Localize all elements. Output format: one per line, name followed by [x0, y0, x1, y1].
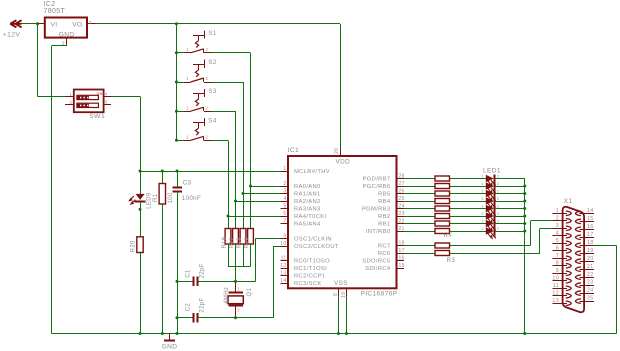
push button S1: [184, 30, 211, 52]
wire IC2 GND down to bottom rail: [52, 46, 67, 334]
svg-text:3: 3: [105, 99, 108, 104]
wire bus to S1 pin1: [176, 52, 184, 54]
svg-text:21: 21: [399, 226, 405, 232]
wire switch bus +5V vertical: [176, 24, 178, 141]
X1 pin numbers: [552, 208, 593, 304]
svg-text:6: 6: [556, 246, 559, 252]
svg-text:GND: GND: [162, 344, 178, 351]
wire bus to S2 pin1: [176, 82, 184, 84]
junction switch bus S3: [175, 110, 178, 113]
svg-text:2: 2: [206, 135, 209, 140]
svg-text:LED9: LED9: [147, 192, 153, 209]
svg-text:7805T: 7805T: [44, 8, 66, 15]
wire common bar down to oscillator node: [235, 267, 237, 282]
svg-text:1: 1: [186, 76, 189, 81]
LED 1/1: [482, 174, 500, 186]
wire RA row to IC1 pin: [236, 201, 281, 203]
svg-text:2: 2: [206, 105, 209, 110]
wire LED1 to cathode bus: [495, 178, 525, 180]
S4 label and pin numbers: [186, 117, 217, 139]
svg-text:R19: R19: [244, 237, 250, 248]
capacitor C3: [172, 171, 182, 335]
resistor R20: [137, 237, 143, 253]
svg-text:1: 1: [482, 196, 485, 201]
wire bus to S3 pin1: [176, 111, 184, 113]
svg-text:RC6: RC6: [378, 251, 391, 257]
net label +12V: [3, 31, 21, 38]
svg-text:2: 2: [556, 216, 559, 222]
wire bus to S4 pin1: [176, 140, 184, 142]
wire column to resistor R18: [235, 201, 237, 229]
svg-text:5: 5: [283, 203, 286, 209]
svg-text:20: 20: [334, 148, 340, 154]
svg-text:25: 25: [587, 296, 594, 302]
wire S4 column down to RA row: [227, 140, 230, 217]
C2 labels: [186, 298, 206, 313]
svg-text:18: 18: [399, 240, 405, 246]
wire resistor to LED4: [450, 201, 487, 203]
push button S2: [184, 60, 211, 83]
wire RB5 row PIC to resistor: [404, 193, 435, 195]
wire RC7 row PIC to resistor: [404, 245, 435, 247]
svg-text:27: 27: [399, 181, 405, 187]
svg-text:R1: R1: [153, 193, 159, 202]
R16 label: [222, 236, 228, 248]
wire +12V down to SW1 pin1: [38, 24, 66, 97]
svg-text:1: 1: [482, 181, 485, 186]
svg-text:RA2/AN2: RA2/AN2: [294, 199, 321, 205]
wire column to resistor R19: [228, 216, 230, 229]
svg-text:23: 23: [587, 280, 594, 286]
svg-text:100: 100: [168, 192, 174, 203]
GND label: [162, 344, 178, 351]
svg-text:22pF: 22pF: [200, 298, 206, 313]
R17 R18 R19 labels (overlapping): [229, 237, 250, 248]
svg-text:RC3/SCK: RC3/SCK: [294, 281, 322, 287]
svg-text:1: 1: [186, 47, 189, 52]
svg-text:24: 24: [587, 288, 594, 294]
svg-text:SDI/RC4: SDI/RC4: [365, 266, 391, 272]
svg-text:17: 17: [587, 232, 594, 238]
wire RB2 row PIC to resistor: [404, 216, 435, 218]
svg-text:24: 24: [399, 203, 405, 209]
IC1 pin number texts: [280, 148, 405, 298]
C1 labels: [186, 263, 206, 278]
LED 1/3: [482, 189, 500, 201]
svg-text:26: 26: [399, 188, 405, 194]
svg-text:12: 12: [552, 291, 559, 297]
svg-text:16: 16: [587, 224, 594, 230]
wire LED2 to cathode bus: [495, 186, 525, 188]
wire RC6 to X1 pin3: [450, 228, 553, 253]
svg-text:19: 19: [587, 248, 594, 254]
svg-text:R3: R3: [447, 257, 456, 264]
wires resistor bottoms to common bar: [228, 244, 251, 267]
svg-text:22: 22: [399, 218, 405, 224]
svg-text:15: 15: [587, 216, 594, 222]
svg-text:R#: R#: [444, 232, 453, 239]
svg-text:R20: R20: [131, 240, 137, 252]
svg-text:GND: GND: [59, 32, 75, 39]
svg-text:8: 8: [556, 261, 559, 267]
C3 labels: [182, 179, 201, 201]
wire S1 pin2 to column: [211, 52, 251, 54]
svg-text:RA4/T0CKI: RA4/T0CKI: [294, 214, 327, 220]
svg-text:20: 20: [587, 256, 594, 262]
svg-text:S3: S3: [208, 88, 217, 95]
wire RB7 row PIC to resistor: [404, 178, 435, 180]
svg-text:PIC16876P: PIC16876P: [361, 290, 398, 297]
wire S2 pin2 to column: [211, 82, 243, 84]
SW1 label: [89, 113, 105, 120]
svg-text:+12V: +12V: [3, 31, 21, 38]
resistor network R# element 2: [435, 184, 450, 189]
svg-text:S4: S4: [208, 117, 217, 124]
junction switch bus S4: [175, 139, 178, 142]
svg-text:13: 13: [552, 298, 559, 304]
LED9 power indicator: [129, 171, 145, 237]
svg-text:1: 1: [556, 208, 559, 214]
wire resistor to LED2: [450, 186, 487, 188]
svg-text:S2: S2: [208, 59, 217, 66]
connector X1 DB25: [552, 207, 594, 312]
svg-text:14: 14: [587, 208, 594, 214]
svg-text:C2: C2: [186, 303, 192, 312]
wire RA row to IC1 pin: [251, 186, 281, 188]
svg-text:C1: C1: [186, 269, 192, 278]
wire RA row to IC1 pin: [243, 193, 281, 195]
svg-text:LED1: LED1: [483, 168, 501, 175]
wire resistor to LED6: [450, 216, 487, 218]
resistor network R# element 1: [435, 176, 450, 181]
svg-text:1: 1: [482, 189, 485, 194]
resistor network R# element 4: [435, 199, 450, 204]
svg-text:1: 1: [482, 219, 485, 224]
svg-text:7: 7: [556, 253, 559, 259]
svg-text:11: 11: [281, 255, 287, 261]
svg-text:2: 2: [497, 204, 500, 209]
wire S3 column down to RA row: [234, 111, 237, 202]
wire resistor to LED8: [450, 231, 487, 233]
SW1 pin numbers: [70, 91, 108, 104]
svg-text:17: 17: [399, 248, 405, 254]
svg-text:1: 1: [482, 226, 485, 231]
S1 label and pin numbers: [186, 30, 217, 52]
R20 label: [131, 240, 137, 252]
svg-text:3: 3: [556, 223, 559, 229]
svg-text:13: 13: [280, 270, 286, 276]
wire RC6 row PIC to resistor: [404, 253, 435, 255]
svg-text:10: 10: [280, 241, 286, 247]
wire resistor to LED1: [450, 178, 487, 180]
capacitor C1: [176, 277, 198, 286]
svg-text:14: 14: [280, 278, 286, 284]
svg-text:X1: X1: [564, 198, 573, 205]
wire RB6 row PIC to resistor: [404, 186, 435, 188]
svg-text:PGC/RB6: PGC/RB6: [363, 184, 391, 190]
LED 1/2: [482, 181, 500, 193]
wire SW1 pin4 to MCLR net, down at x=140: [111, 96, 141, 171]
svg-text:9: 9: [283, 233, 286, 239]
svg-text:RB1: RB1: [378, 222, 390, 228]
svg-text:RC0/T1OSO: RC0/T1OSO: [294, 259, 330, 265]
IC2 pin numbers 1 3 2: [62, 20, 92, 46]
resistor network R# element 5: [435, 206, 450, 211]
ground rail: [52, 333, 617, 335]
LED 1/7: [482, 219, 500, 231]
wire OSC1 net: pin to corner and down: [198, 239, 281, 282]
microcontroller IC1 PIC16876P: [281, 149, 405, 296]
LED 1/8: [482, 226, 500, 238]
wire LED8 to cathode bus: [495, 231, 525, 233]
wire R1 to ground rail: [161, 204, 164, 335]
svg-text:1: 1: [482, 211, 485, 216]
wire column to resistor R17: [243, 194, 245, 229]
LED 1/4: [482, 196, 500, 208]
LED1 label: [483, 168, 501, 175]
wire X1 pin18 to ground rail: [594, 245, 617, 333]
svg-text:2: 2: [206, 47, 209, 52]
wire LED4 to cathode bus: [495, 201, 525, 203]
wire S2 column down to RA row: [242, 82, 245, 195]
LED 1/6: [482, 211, 500, 223]
wire LED cathode bus down to ground rail: [523, 179, 526, 336]
svg-text:OSC2/CLKOUT: OSC2/CLKOUT: [294, 244, 339, 250]
svg-text:15: 15: [399, 263, 405, 269]
svg-text:RC1/T1OSI: RC1/T1OSI: [294, 266, 327, 272]
svg-text:PGM/RB3: PGM/RB3: [362, 207, 391, 213]
svg-text:2: 2: [497, 219, 500, 224]
LED 1/5: [482, 204, 500, 216]
R3 label: [447, 257, 456, 264]
svg-text:INT/RB0: INT/RB0: [366, 229, 391, 235]
wire S3 pin2 to column: [211, 111, 236, 113]
junction switch bus S1: [175, 51, 178, 54]
svg-text:R17: R17: [229, 237, 235, 248]
dip switch SW1: [65, 90, 111, 113]
resistor R1: [159, 171, 165, 204]
svg-text:4: 4: [283, 196, 286, 202]
wire resistor to LED5: [450, 208, 487, 210]
svg-text:C3: C3: [183, 179, 192, 186]
svg-text:21: 21: [587, 264, 594, 270]
svg-text:VI: VI: [51, 21, 58, 28]
svg-text:PGD/RB7: PGD/RB7: [363, 177, 391, 183]
svg-text:2: 2: [206, 76, 209, 81]
svg-text:16: 16: [399, 255, 405, 261]
svg-text:22pF: 22pF: [200, 263, 206, 278]
svg-text:2: 2: [497, 189, 500, 194]
wire RB3 row PIC to resistor: [404, 208, 435, 210]
svg-text:1: 1: [186, 135, 189, 140]
resistor network R# element 8: [435, 229, 450, 234]
svg-text:25: 25: [399, 196, 405, 202]
S3 label and pin numbers: [186, 88, 217, 110]
wires IC1 VSS pins to ground rail: [337, 296, 348, 335]
wire LED5 to cathode bus: [495, 208, 525, 210]
svg-text:2: 2: [283, 181, 286, 187]
wire RB4 row PIC to resistor: [404, 201, 435, 203]
svg-text:1: 1: [237, 287, 240, 292]
wire S4 pin2 to column: [211, 140, 228, 142]
wire RC7 to X1 pin2: [450, 221, 553, 246]
resistor network R# element 7: [435, 221, 450, 226]
IC1 pin name texts: [294, 159, 391, 288]
svg-text:OSC1/CLKIN: OSC1/CLKIN: [294, 237, 332, 243]
+12V supply arrow: [10, 20, 21, 27]
wire LED6 to cathode bus: [495, 216, 525, 218]
svg-text:12: 12: [280, 263, 286, 269]
capacitor C2: [176, 313, 198, 322]
svg-text:4: 4: [105, 91, 108, 96]
svg-text:8: 8: [333, 293, 339, 296]
svg-text:28: 28: [399, 173, 405, 179]
resistor network R16-R19 bodies: [225, 229, 253, 245]
svg-text:4MHz: 4MHz: [224, 287, 230, 304]
wire R20 to ground rail: [139, 253, 142, 336]
svg-text:1: 1: [482, 204, 485, 209]
svg-text:4: 4: [556, 231, 559, 237]
svg-text:2: 2: [497, 196, 500, 201]
svg-text:R16: R16: [222, 236, 228, 248]
svg-text:5: 5: [556, 238, 559, 244]
svg-text:100nF: 100nF: [182, 195, 201, 202]
resistor R3: [435, 251, 450, 256]
wire OSC2 net: pin to corner and down: [198, 246, 281, 318]
push button S4: [184, 118, 211, 141]
svg-text:2: 2: [497, 211, 500, 216]
LED9 label: [147, 192, 153, 209]
svg-text:MCLR#/THV: MCLR#/THV: [294, 169, 330, 175]
svg-text:2: 2: [497, 181, 500, 186]
wire MCLR net horizontal: [139, 170, 281, 173]
svg-text:RB5: RB5: [378, 192, 390, 198]
X1 label: [564, 198, 573, 205]
S2 label and pin numbers: [186, 59, 217, 81]
svg-text:RA3/AN3: RA3/AN3: [294, 207, 321, 213]
svg-text:7: 7: [283, 218, 286, 224]
wire resistor to LED7: [450, 223, 487, 225]
svg-text:2: 2: [70, 100, 73, 105]
wire S1 column down to RA row: [249, 53, 252, 188]
svg-text:3: 3: [283, 188, 286, 194]
svg-text:1: 1: [186, 105, 189, 110]
svg-text:IC1: IC1: [288, 147, 300, 154]
svg-text:RA1/AN1: RA1/AN1: [294, 192, 321, 198]
wire +5V down to IC1 VDD pin 20: [340, 24, 342, 149]
svg-text:S1: S1: [208, 30, 217, 37]
svg-text:IC2: IC2: [44, 1, 56, 8]
svg-text:SDO/RC5: SDO/RC5: [362, 259, 390, 265]
svg-text:10: 10: [552, 276, 559, 282]
svg-text:ON: ON: [97, 92, 103, 96]
svg-text:VSS: VSS: [334, 280, 348, 287]
svg-text:2: 2: [237, 308, 240, 313]
svg-text:1: 1: [283, 166, 286, 172]
wire LED3 to cathode bus: [495, 193, 525, 195]
R1 labels: [153, 192, 174, 203]
wire RB0 row PIC to resistor: [404, 231, 435, 233]
svg-text:2: 2: [497, 226, 500, 231]
svg-text:VDD: VDD: [336, 159, 351, 166]
resistor network R# element 6: [435, 214, 450, 219]
svg-text:RA0/AN0: RA0/AN0: [294, 184, 321, 190]
junction switch bus S2: [175, 81, 178, 84]
crystal Q1 4MHz: [228, 280, 243, 319]
R# label: [444, 232, 453, 239]
svg-text:1: 1: [70, 92, 73, 97]
Q1 labels: [224, 287, 253, 313]
push button S3: [184, 89, 211, 112]
svg-text:3: 3: [89, 20, 92, 26]
IC2 name labels: [44, 1, 66, 15]
svg-text:RB4: RB4: [378, 199, 391, 205]
wire column to resistor R16: [250, 186, 252, 229]
wire RB1 row PIC to resistor: [404, 223, 435, 225]
svg-text:11: 11: [553, 283, 559, 289]
svg-text:RA5/AN4: RA5/AN4: [294, 222, 321, 228]
svg-text:SW1: SW1: [89, 113, 105, 120]
svg-text:18: 18: [587, 240, 594, 246]
voltage regulator IC2 7805T: [38, 18, 96, 46]
svg-text:22: 22: [587, 272, 594, 278]
svg-text:Q1: Q1: [247, 287, 253, 296]
wire +5V rail from IC2 VO to VDD drop, junction at switch bus: [96, 22, 341, 25]
wire RA row to IC1 pin: [228, 216, 281, 218]
IC1 name and value labels: [288, 147, 398, 298]
wire +12V arrow to IC2 VI, junction: [22, 22, 40, 25]
svg-text:RC2/CCP1: RC2/CCP1: [294, 274, 325, 280]
svg-text:VO: VO: [72, 21, 82, 28]
resistor R# upper of pair: [435, 243, 450, 248]
svg-text:23: 23: [399, 211, 405, 217]
svg-text:9: 9: [556, 268, 559, 274]
svg-text:R18: R18: [237, 237, 243, 248]
svg-text:6: 6: [283, 211, 286, 217]
wire resistor to LED3: [450, 193, 487, 195]
svg-text:RB2: RB2: [378, 214, 390, 220]
IC2 pin labels VI VO GND: [51, 21, 83, 38]
svg-text:RC7: RC7: [378, 244, 391, 250]
resistor network R# element 3: [435, 191, 450, 196]
wire LED7 to cathode bus: [495, 223, 525, 225]
ground symbol GND: [164, 334, 175, 341]
